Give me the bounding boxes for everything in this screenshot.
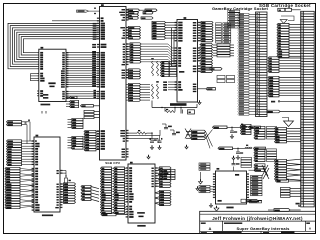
capacitor C18 xyxy=(232,160,240,165)
title block xyxy=(200,211,316,233)
net flags W-RAM data xyxy=(157,167,171,188)
wires CPU data to ICD2 xyxy=(126,43,177,66)
wire VRAM bottom stubs xyxy=(42,111,46,114)
inductor L5 L6 filters xyxy=(151,58,159,99)
wires ICD2 left lower xyxy=(163,81,177,90)
net flags VRAM right lower xyxy=(66,100,79,107)
net flags ICD2 right A xyxy=(200,21,214,42)
ground center bottom 2 xyxy=(209,203,212,207)
net flag BOOT xyxy=(267,110,301,113)
ground crystal xyxy=(198,100,201,104)
bus CPU to VRAM xyxy=(8,23,97,69)
crystal X1 oscillator xyxy=(152,101,197,115)
net flags loose bottom left xyxy=(81,185,99,201)
net flag column lower C xyxy=(254,164,265,172)
capacitor C12 xyxy=(150,136,163,143)
component C5x group xyxy=(84,110,100,118)
resistor pack RP2 xyxy=(213,44,234,57)
power flag VCC CIC xyxy=(249,169,262,171)
net flags ICD2 right B xyxy=(200,59,213,72)
header GameBoy Cartridge Socket xyxy=(212,6,269,11)
net flags TC528256 ctl xyxy=(7,120,31,144)
net flags VRAM misc A xyxy=(68,118,84,128)
net flag SOUT xyxy=(268,209,301,212)
ic U8 CIC F411A xyxy=(213,167,249,209)
net flags CPU addr xyxy=(126,69,141,79)
ground audio 1 xyxy=(150,145,153,149)
svg-text:A: A xyxy=(309,226,312,230)
ground filter 1 xyxy=(230,134,233,138)
bus arrow lower xyxy=(282,118,294,127)
net flag POUT xyxy=(101,213,126,216)
ground filter 2 xyxy=(236,155,239,159)
resistor R2 / capacitor C11 xyxy=(126,130,157,142)
net flags mid column xyxy=(216,23,231,43)
net flags W-RAM left B xyxy=(114,167,127,214)
net flags TC528256 data xyxy=(61,183,76,204)
net flags CPU serial xyxy=(126,9,157,19)
net flag CIC out xyxy=(250,200,262,203)
net flags TC528256 left B xyxy=(5,167,34,208)
net flag boxes CIC right xyxy=(251,175,263,195)
net flags CPU control xyxy=(126,26,141,39)
svg-text:GameBoy Cartridge Socket: GameBoy Cartridge Socket xyxy=(212,6,269,11)
net flags TC528256 left A xyxy=(7,140,35,166)
net flags center column xyxy=(126,83,150,101)
svg-text:Super GameBoy Internals: Super GameBoy Internals xyxy=(236,226,290,231)
net flag boxes CIC left upper xyxy=(199,163,210,170)
filter ROUT C17 L3 xyxy=(218,145,266,154)
net flag column left edge A xyxy=(241,124,252,134)
net flag boxes above ICD2 xyxy=(228,10,240,28)
wires audio crossing xyxy=(206,130,213,149)
capacitor C13 C14 xyxy=(162,124,180,135)
bus arrow right xyxy=(280,16,294,23)
svg-text:SGB CPU: SGB CPU xyxy=(105,161,120,165)
bus vertical center xyxy=(172,28,175,66)
connector J2 GameBoy cartridge socket xyxy=(301,11,315,207)
net flags W-RAM misc xyxy=(155,190,171,205)
net flag boxes CIC left lower xyxy=(199,185,216,192)
ic U5 ICD2-N xyxy=(170,17,200,106)
net flag R07 xyxy=(241,199,262,202)
net flags CPU bottom left xyxy=(84,130,100,151)
ground CIC bottom xyxy=(214,206,219,211)
ground W-RAM top xyxy=(147,155,150,159)
net flags ICD2 left upper xyxy=(152,21,177,39)
net flags ICD2 left lower xyxy=(161,61,177,76)
fuse F1 xyxy=(278,8,301,11)
net flag column left edge B xyxy=(241,157,252,167)
net flags GB socket ctl xyxy=(275,127,301,143)
net flags audio out xyxy=(185,129,206,140)
power flag VCC right mid xyxy=(271,101,301,103)
wires VRAM data to CPU xyxy=(66,44,100,87)
ground center bottom 1 xyxy=(196,186,199,190)
net flags SGB socket column xyxy=(238,13,256,115)
net flags GB socket addr xyxy=(277,23,301,57)
wires audio outs xyxy=(126,130,160,143)
op-amp U1 SGB CPU xyxy=(52,4,129,165)
resistor pack RP3 xyxy=(217,75,235,82)
ground audio 2 xyxy=(185,145,188,149)
memory U3 V-RAM LH52256 xyxy=(37,47,68,105)
power flag VCC bottom right xyxy=(296,203,301,207)
component POC xyxy=(200,68,223,71)
power flag VCC cpu xyxy=(81,105,100,107)
memory U9 W-RAM LH5264 xyxy=(126,162,158,227)
wires VRAM addr to CPU xyxy=(31,74,98,99)
memory U6 TC528256 xyxy=(32,135,63,216)
power flag VCC VRAM xyxy=(66,96,77,98)
svg-text:A: A xyxy=(208,226,211,231)
net flag CM80 xyxy=(198,88,216,90)
connector J1 SGB cartridge socket xyxy=(256,12,268,117)
net flags GB socket data2 xyxy=(262,159,301,180)
ground audio 1b xyxy=(158,145,161,149)
component grid right xyxy=(281,187,301,197)
net flags center bottom xyxy=(158,169,175,179)
svg-text:Jeff Frohwein (jfrohwei@HiWAAY: Jeff Frohwein (jfrohwei@HiWAAY.net) xyxy=(212,216,303,221)
net flags W-RAM left A xyxy=(101,167,114,214)
net flag reset xyxy=(276,180,301,182)
net flags GB socket addr2 xyxy=(268,76,301,97)
resistor R4 NC pull xyxy=(62,171,71,184)
net flag column lower B xyxy=(254,149,277,162)
ground CIC cap xyxy=(232,156,235,160)
ground CIC left xyxy=(199,179,203,184)
net flag column lower A xyxy=(254,126,277,139)
wire CIC gnd xyxy=(200,172,202,180)
header SGB Cartridge Socket xyxy=(259,3,311,8)
net flags GB socket data xyxy=(268,57,301,73)
net flags ICD2 right C xyxy=(200,43,213,58)
filter LOUT C16 L2 xyxy=(213,124,261,133)
net flags VRAM misc B xyxy=(68,136,84,149)
